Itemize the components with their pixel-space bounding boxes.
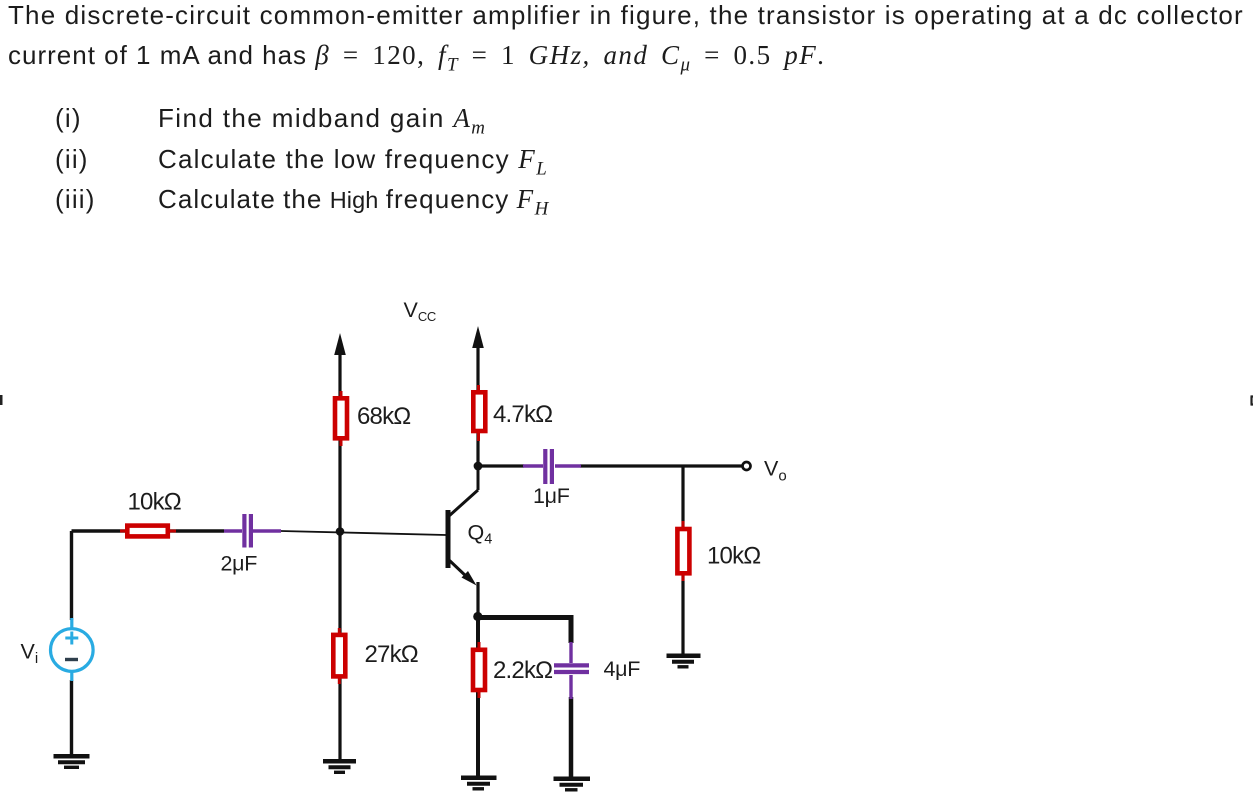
wire emitter arrow to junction <box>476 582 479 618</box>
svg-text:1μF: 1μF <box>533 484 570 508</box>
ground (10k load) <box>667 656 701 667</box>
svg-text:10kΩ: 10kΩ <box>128 489 181 516</box>
transistor Q4 <box>448 468 478 586</box>
ground (4uF capacitor) <box>554 779 591 790</box>
wire 4uF capacitor to ground <box>569 697 574 780</box>
Vcc arrow right <box>472 326 484 348</box>
wire emitter junction right to 4uF branch <box>476 615 571 643</box>
resistor R 2.2k <box>473 642 485 698</box>
node collector junction <box>474 462 483 471</box>
wire 10k resistor to 2uF capacitor <box>169 529 224 532</box>
capacitor C 2uF <box>224 514 281 548</box>
node base junction <box>336 527 345 536</box>
wire emitter junction down through 2.2k to ground <box>476 615 480 779</box>
capacitor C 4uF <box>554 642 589 699</box>
wire left Vcc rail <box>338 350 341 760</box>
Vcc arrow left <box>334 333 346 355</box>
wire input source up and right to 10k resistor <box>72 531 127 756</box>
svg-text:2μF: 2μF <box>221 552 258 576</box>
svg-text:VCC: VCC <box>404 298 437 324</box>
list item (iii) <box>55 184 96 215</box>
ground (Vi source) <box>54 756 90 767</box>
svg-text:27kΩ: 27kΩ <box>365 641 418 668</box>
resistor R 68k <box>335 391 347 446</box>
node emitter junction <box>473 612 482 621</box>
terminal Vo <box>743 462 751 470</box>
resistor R 4.7k <box>473 385 485 441</box>
list item (ii) <box>55 144 89 175</box>
svg-text:10kΩ: 10kΩ <box>707 543 760 570</box>
ground (2.2k resistor) <box>461 778 497 789</box>
resistor R 10k input (horizontal) <box>120 526 176 537</box>
problem statement line 2 <box>8 40 825 76</box>
wire right Vcc rail <box>476 343 479 466</box>
list item (i) <box>55 103 82 134</box>
source Vi <box>51 618 94 681</box>
edge mark right <box>1251 397 1253 405</box>
wire collector node to output terminal <box>478 464 743 467</box>
wire base 2uF capacitor to transistor <box>281 531 446 535</box>
resistor R 27k <box>333 628 345 684</box>
svg-text:4μF: 4μF <box>604 657 641 681</box>
svg-text:2.2kΩ: 2.2kΩ <box>493 657 552 684</box>
wire output branch down to 10k load <box>681 466 684 654</box>
capacitor C 1uF <box>523 449 581 484</box>
svg-text:Vi: Vi <box>21 640 39 668</box>
svg-text:Q4: Q4 <box>468 521 493 548</box>
svg-text:Vo: Vo <box>764 457 787 485</box>
problem statement line 1 <box>8 0 1244 31</box>
resistor R 10k load <box>677 521 689 581</box>
ground (left rail) <box>323 761 356 772</box>
svg-text:68kΩ: 68kΩ <box>357 403 410 430</box>
svg-text:4.7kΩ: 4.7kΩ <box>493 401 552 428</box>
edge mark left <box>0 395 3 405</box>
